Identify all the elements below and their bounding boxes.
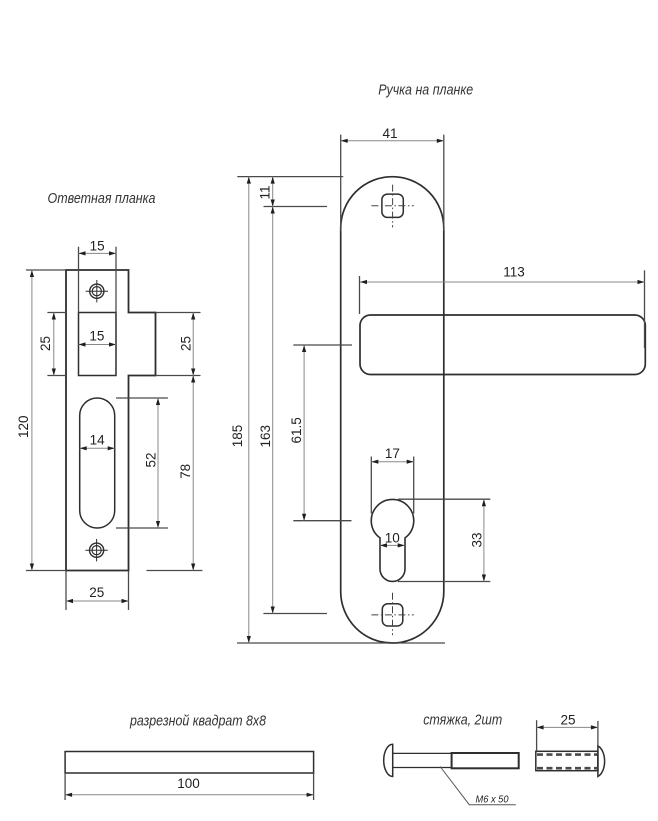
dim 25 (bottom)	[66, 600, 129, 602]
svg-text:М6 х 50: М6 х 50	[476, 795, 509, 806]
latch hole	[79, 313, 117, 376]
dim 113 extension lines	[360, 270, 645, 348]
dim 25 (right tab)	[192, 313, 194, 376]
svg-text:15: 15	[89, 329, 104, 344]
dim 25 (right tab) extension lines	[147, 313, 203, 571]
strike plate outline	[66, 270, 156, 571]
bottom screw hole (rounded square)	[382, 604, 403, 626]
svg-text:15: 15	[90, 239, 105, 254]
leader line M6 x 50	[440, 767, 516, 805]
dim 33 extension lines	[398, 499, 490, 581]
dim 41	[341, 140, 444, 142]
svg-text:25: 25	[179, 336, 194, 351]
square spindle bar	[65, 752, 314, 774]
svg-text:Ручка на планке: Ручка на планке	[378, 82, 473, 99]
dim 14 (inside slot)	[80, 447, 115, 449]
screw hole top	[86, 280, 108, 302]
svg-text:113: 113	[503, 265, 525, 280]
svg-text:стяжка, 2шт: стяжка, 2шт	[423, 712, 502, 729]
dim 11	[272, 177, 274, 207]
dim 113	[360, 281, 645, 283]
svg-text:25: 25	[89, 585, 104, 600]
bolt shank	[393, 753, 452, 767]
dim 52 extension lines	[116, 398, 168, 528]
dim 33	[483, 499, 485, 581]
svg-text:14: 14	[90, 433, 106, 448]
dim 25 (sleeve) extension lines	[537, 720, 598, 751]
top screw centerlines (dash-dot)	[371, 185, 413, 228]
svg-text:33: 33	[470, 532, 485, 547]
dim 25 (bottom) extension lines	[66, 571, 129, 611]
euro cylinder keyhole	[371, 499, 414, 581]
svg-text:17: 17	[385, 446, 400, 461]
handle backplate (stadium)	[341, 177, 444, 643]
svg-text:25: 25	[38, 336, 53, 351]
svg-text:10: 10	[385, 530, 400, 545]
reference lines (left side)	[237, 177, 445, 643]
svg-text:разрезной квадрат 8х8: разрезной квадрат 8х8	[129, 713, 266, 730]
svg-text:185: 185	[230, 425, 245, 448]
svg-text:100: 100	[177, 776, 200, 791]
svg-text:11: 11	[257, 185, 272, 199]
handle lever	[360, 315, 645, 375]
sleeve dome cap	[598, 746, 605, 777]
dim 120 extension lines	[26, 270, 66, 571]
bolt thread section	[452, 753, 519, 768]
svg-text:78: 78	[178, 464, 193, 479]
dim 15 (top)	[79, 252, 117, 254]
svg-text:25: 25	[560, 712, 575, 727]
sleeve thread texture	[537, 755, 597, 769]
dim 52	[157, 398, 159, 528]
dim 10 (keyhole slot)	[380, 544, 405, 546]
svg-text:Ответная планка: Ответная планка	[48, 190, 156, 207]
dim 120	[31, 270, 33, 571]
dim 15 (top) extension lines	[79, 247, 117, 313]
top screw hole (rounded square)	[382, 194, 403, 217]
screw hole bottom	[85, 539, 107, 561]
dim 163	[272, 207, 274, 614]
dim 25 (sleeve)	[537, 726, 598, 728]
bottom screw centerlines (dash-dot)	[371, 593, 413, 635]
svg-text:163: 163	[258, 425, 273, 448]
slot (obround hole)	[80, 398, 115, 528]
svg-text:120: 120	[16, 415, 31, 438]
dim 100 extension lines	[65, 773, 314, 800]
svg-text:41: 41	[382, 126, 397, 141]
svg-text:61.5: 61.5	[289, 417, 304, 443]
dim 100	[65, 794, 314, 796]
dim 17 extension lines	[371, 457, 413, 514]
dim 17	[371, 461, 413, 463]
dim 25 (left) extension lines	[47, 313, 66, 376]
dim 185	[248, 177, 250, 643]
bolt head	[384, 744, 393, 776]
dim 25 (left)	[53, 313, 55, 376]
sleeve body	[536, 751, 598, 770]
dim 15 (inside latch hole)	[79, 344, 117, 346]
dim 41 extension lines	[341, 135, 444, 231]
dim 78	[192, 376, 194, 571]
dim 61.5	[303, 345, 305, 521]
svg-text:52: 52	[144, 452, 159, 467]
